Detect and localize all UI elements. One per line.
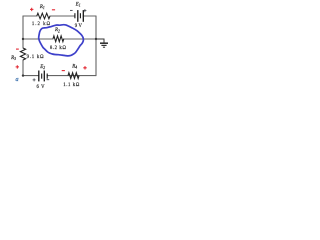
polarity + of E1	[83, 9, 86, 12]
battery E1 short plate	[79, 13, 81, 18]
battery E2 long plate (positive, left)	[38, 71, 40, 82]
polarity - of R4 (red)	[62, 70, 65, 72]
svg-text:R4: R4	[71, 64, 77, 69]
wire R2 to right node	[64, 38, 97, 40]
polarity + of R4 (red)	[83, 66, 86, 69]
polarity + of R3 (red)	[16, 65, 19, 68]
polarity - of E2	[47, 79, 50, 81]
svg-text:8.2 kΩ: 8.2 kΩ	[50, 46, 66, 51]
battery E2 short plate	[41, 74, 43, 79]
svg-text:9 V: 9 V	[75, 24, 83, 29]
wire R3 to bottom-left corner	[22, 60, 24, 76]
resistor R3	[20, 48, 25, 60]
node junction dot bottom-left (node a)	[22, 74, 24, 76]
svg-text:6 V: 6 V	[37, 85, 46, 90]
svg-text:1.1 kΩ: 1.1 kΩ	[63, 83, 79, 88]
svg-text:R1: R1	[39, 5, 45, 10]
battery E1 long plate	[77, 10, 79, 22]
wire R1 to E1	[50, 15, 75, 17]
svg-text:R3: R3	[10, 56, 16, 61]
battery E1 long plate (positive, right)	[82, 10, 84, 22]
wire middle node to R2	[23, 38, 53, 40]
wire right rail	[95, 16, 97, 76]
wire E1 to top-right corner	[83, 15, 96, 17]
polarity + of E2	[33, 78, 36, 81]
wire left rail top to R3	[22, 16, 24, 48]
wire stub from right node to ground	[96, 39, 104, 43]
node junction dot left-middle	[22, 38, 24, 40]
wire bottom-right corner to E2	[47, 75, 96, 77]
resistor R2	[53, 36, 64, 42]
wire E2 to bottom-left corner	[23, 75, 39, 77]
resistor R4	[68, 73, 79, 79]
polarity + of R1 (red)	[30, 8, 33, 11]
ground	[100, 42, 108, 44]
resistor R1	[37, 13, 50, 19]
battery E2 short plate (negative, right)	[46, 74, 48, 79]
svg-text:E2: E2	[39, 65, 45, 70]
polarity - of E1	[70, 9, 73, 11]
svg-text:1.2 kΩ: 1.2 kΩ	[32, 22, 51, 27]
svg-text:R2: R2	[54, 28, 60, 33]
svg-text:a: a	[16, 77, 19, 83]
battery E1 short plate (negative, left)	[74, 13, 76, 18]
polarity - of R1 (red)	[52, 9, 55, 11]
svg-text:E1: E1	[75, 2, 81, 7]
wire top-left corner to R1	[23, 15, 37, 17]
battery E2 long plate	[43, 71, 45, 82]
polarity - of R3 (red)	[16, 48, 19, 50]
svg-text:9.1 kΩ: 9.1 kΩ	[27, 55, 44, 60]
blue KVL loop	[39, 25, 84, 56]
node junction dot right-middle	[95, 38, 97, 40]
